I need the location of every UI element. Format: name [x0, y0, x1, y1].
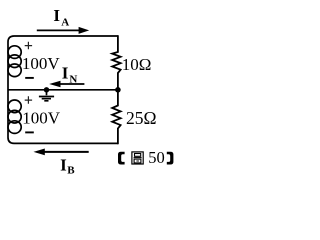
- svg-text:50: 50: [148, 148, 165, 167]
- svg-text:I: I: [60, 155, 67, 174]
- svg-text:25Ω: 25Ω: [126, 108, 157, 128]
- svg-text:10Ω: 10Ω: [122, 55, 152, 74]
- svg-text:I: I: [53, 6, 60, 25]
- svg-text:100V: 100V: [22, 109, 61, 128]
- svg-text:B: B: [67, 165, 75, 177]
- svg-text:100V: 100V: [22, 54, 61, 73]
- svg-text:A: A: [61, 16, 69, 28]
- svg-text:I: I: [62, 64, 69, 83]
- svg-text:N: N: [69, 73, 77, 85]
